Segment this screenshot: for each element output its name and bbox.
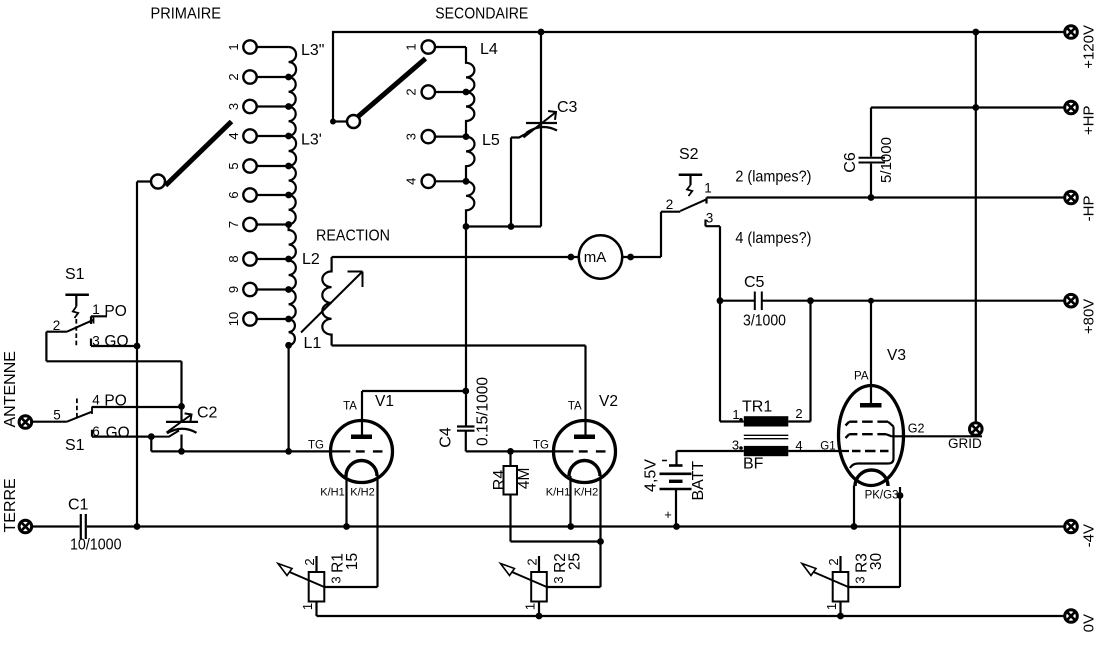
svg-text:15: 15 (344, 553, 361, 570)
svg-text:L3": L3" (301, 42, 324, 59)
svg-text:TERRE: TERRE (2, 478, 19, 532)
svg-text:-HP: -HP (1081, 196, 1098, 222)
svg-text:S2: S2 (679, 146, 699, 163)
svg-text:1: 1 (704, 181, 712, 196)
svg-text:4: 4 (404, 178, 419, 185)
svg-text:1: 1 (824, 603, 839, 610)
svg-text:mA: mA (584, 249, 607, 266)
svg-text:S1: S1 (65, 266, 85, 283)
svg-text:PRIMAIRE: PRIMAIRE (151, 6, 222, 23)
svg-text:5: 5 (53, 408, 61, 423)
svg-text:30: 30 (868, 553, 885, 571)
svg-text:BATT: BATT (690, 461, 707, 501)
svg-text:8: 8 (226, 255, 241, 262)
svg-text:4: 4 (226, 132, 241, 139)
svg-text:5/1000: 5/1000 (878, 137, 895, 183)
svg-text:2 (lampes?): 2 (lampes?) (735, 169, 811, 186)
svg-text:2: 2 (404, 88, 419, 95)
svg-text:G2: G2 (908, 422, 925, 436)
svg-text:PK/G3: PK/G3 (865, 490, 899, 502)
svg-text:REACTION: REACTION (316, 228, 390, 245)
svg-text:4,5V: 4,5V (643, 459, 660, 492)
svg-text:+: + (664, 507, 672, 522)
svg-text:+120V: +120V (1081, 25, 1098, 69)
svg-text:C5: C5 (744, 274, 765, 291)
svg-text:V3: V3 (887, 347, 906, 364)
svg-text:2: 2 (226, 73, 241, 80)
svg-text:0V: 0V (1081, 614, 1098, 632)
svg-text:BF: BF (743, 456, 764, 473)
svg-text:C2: C2 (197, 405, 218, 422)
svg-text:6: 6 (226, 191, 241, 198)
svg-text:V2: V2 (599, 393, 618, 410)
svg-text:2: 2 (826, 558, 841, 565)
svg-text:L5: L5 (482, 132, 500, 149)
svg-text:L3': L3' (301, 132, 322, 149)
svg-text:GO: GO (106, 424, 130, 441)
svg-text:3: 3 (706, 211, 714, 226)
svg-text:3: 3 (404, 133, 419, 140)
svg-text:C4: C4 (437, 427, 454, 448)
svg-text:6: 6 (92, 424, 100, 439)
svg-text:1: 1 (226, 43, 241, 50)
svg-text:TA: TA (568, 401, 582, 413)
svg-text:3/1000: 3/1000 (743, 313, 786, 330)
svg-text:K/H1: K/H1 (320, 486, 344, 498)
svg-text:10/1000: 10/1000 (70, 537, 122, 554)
svg-text:L1: L1 (304, 335, 322, 352)
svg-text:G1: G1 (820, 440, 835, 452)
svg-text:V1: V1 (375, 393, 394, 410)
svg-text:2: 2 (666, 197, 674, 212)
svg-text:2: 2 (302, 558, 317, 565)
svg-text:R4: R4 (491, 470, 508, 491)
svg-text:2: 2 (795, 406, 802, 421)
svg-text:GRID: GRID (948, 436, 982, 451)
svg-text:2: 2 (525, 558, 540, 565)
svg-text:3: 3 (551, 576, 566, 583)
svg-text:GO: GO (104, 333, 128, 350)
svg-text:25: 25 (566, 553, 583, 570)
svg-text:1: 1 (404, 43, 419, 50)
svg-text:K/H2: K/H2 (574, 486, 598, 498)
svg-text:ANTENNE: ANTENNE (2, 351, 19, 427)
svg-text:K/H2: K/H2 (350, 486, 374, 498)
svg-text:1: 1 (300, 603, 315, 610)
svg-text:S1: S1 (65, 437, 85, 454)
svg-text:+HP: +HP (1081, 106, 1098, 136)
svg-text:3: 3 (329, 576, 344, 583)
svg-text:10: 10 (226, 312, 241, 326)
svg-text:4 (lampes?): 4 (lampes?) (735, 230, 811, 247)
svg-text:TR1: TR1 (742, 399, 772, 416)
svg-text:3: 3 (92, 333, 100, 348)
svg-text:L4: L4 (480, 41, 498, 58)
svg-text:4M: 4M (516, 468, 533, 490)
svg-text:1: 1 (732, 407, 739, 422)
svg-text:0.15/1000: 0.15/1000 (475, 377, 492, 446)
svg-text:PO: PO (104, 303, 126, 320)
svg-text:7: 7 (226, 221, 241, 228)
svg-text:C3: C3 (557, 99, 578, 116)
svg-text:K/H1: K/H1 (546, 486, 570, 498)
svg-text:-4V: -4V (1081, 524, 1098, 547)
svg-text:+80V: +80V (1081, 299, 1098, 334)
svg-text:3: 3 (226, 103, 241, 110)
svg-text:L2: L2 (302, 251, 320, 268)
svg-text:9: 9 (226, 286, 241, 293)
svg-text:3: 3 (853, 576, 868, 583)
svg-text:5: 5 (226, 162, 241, 169)
svg-text:C1: C1 (68, 497, 89, 514)
svg-text:TA: TA (343, 401, 357, 413)
svg-text:PO: PO (104, 393, 126, 410)
svg-text:4: 4 (92, 393, 100, 408)
svg-text:SECONDAIRE: SECONDAIRE (435, 6, 528, 23)
svg-text:TG: TG (533, 440, 549, 452)
svg-text:C6: C6 (842, 152, 859, 173)
svg-text:PA: PA (854, 371, 869, 383)
svg-text:TG: TG (308, 440, 324, 452)
svg-text:1: 1 (92, 302, 100, 317)
svg-text:1: 1 (523, 603, 538, 610)
